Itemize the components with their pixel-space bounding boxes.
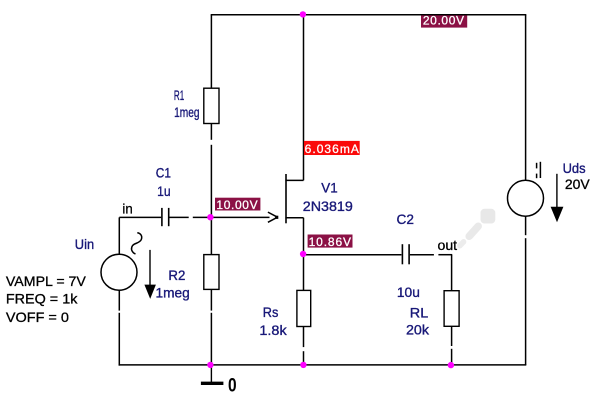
wire: C2 to out corner (438, 254, 452, 256)
wire: R1 branch from top rail (210, 15, 212, 89)
ground 0 (201, 365, 237, 393)
bias label 6.036mA (304, 141, 360, 156)
svg-text:C2: C2 (397, 211, 415, 227)
wire: bottom rail (119, 364, 527, 366)
wire: junction down to R2 (210, 217, 212, 254)
svg-text:20V: 20V (565, 176, 590, 192)
capacitor C2 (402, 244, 434, 264)
node dot: in junction (207, 214, 213, 220)
svg-text:1.8k: 1.8k (259, 322, 287, 338)
svg-text:2N3819: 2N3819 (303, 198, 353, 214)
bias label 10.86V (308, 235, 353, 249)
wire: R2 to bottom rail (210, 313, 212, 365)
capacitor C1 (162, 208, 189, 226)
svg-text:10.86V: 10.86V (309, 235, 351, 249)
Uds polarity arrow (551, 174, 564, 223)
svg-text:10u: 10u (397, 284, 420, 300)
svg-text:1meg: 1meg (174, 104, 199, 120)
transistor V1 body (285, 174, 303, 223)
node dot: ground junction (207, 362, 213, 368)
svg-text:VOFF = 0: VOFF = 0 (6, 309, 69, 325)
node dot: RL bottom junction (448, 362, 454, 368)
wire: source node to C2 (304, 254, 402, 256)
svg-text:RL: RL (410, 305, 429, 321)
wire: RL to bottom rail (451, 349, 453, 365)
svg-text:V1: V1 (321, 180, 338, 196)
svg-text:FREQ = 1k: FREQ = 1k (6, 291, 79, 307)
resistor RL (444, 291, 459, 346)
svg-text:R2: R2 (168, 267, 185, 283)
wire: Uin to bottom rail (118, 290, 120, 365)
svg-text:0: 0 (228, 375, 237, 393)
wire: C1 to junction (193, 216, 211, 218)
bias label 20.00V (421, 14, 467, 28)
probe marker grey (460, 209, 495, 246)
svg-text:6.036mA: 6.036mA (305, 142, 359, 156)
wire: Rs to bottom rail (303, 351, 305, 365)
svg-text:Uds: Uds (563, 160, 586, 176)
resistor R1 (204, 88, 219, 140)
svg-text:20.00V: 20.00V (423, 14, 464, 28)
resistor Rs (297, 290, 311, 347)
svg-text:1u: 1u (157, 183, 171, 199)
wire: gate from junction (211, 216, 270, 218)
wire: Uds to bottom rail (525, 216, 527, 365)
wire: Rs top (303, 255, 305, 291)
bias label 10.00V (215, 198, 260, 212)
wire: top supply rail (211, 14, 527, 16)
Uin current arrow (144, 250, 156, 299)
svg-text:Rs: Rs (263, 304, 279, 320)
svg-text:out: out (438, 237, 458, 253)
source Uin (101, 233, 142, 291)
svg-text:C1: C1 (156, 165, 171, 181)
svg-text:Uin: Uin (75, 236, 94, 252)
wire: out corner down to RL (451, 255, 453, 291)
svg-text:20k: 20k (406, 321, 430, 337)
svg-text:10.00V: 10.00V (216, 198, 257, 212)
svg-text:VAMPL = 7V: VAMPL = 7V (6, 273, 87, 289)
source Uds (508, 162, 544, 216)
wire: drain to top rail (303, 15, 305, 181)
node dot: top rail / drain (300, 11, 306, 17)
svg-text:in: in (122, 200, 132, 216)
transistor V1 gate arrow (268, 212, 278, 222)
resistor R2 (204, 255, 219, 311)
wire: in node horizontal to C1 (119, 216, 161, 218)
wire: R1 to C1 junction (210, 145, 212, 218)
svg-text:R1: R1 (174, 87, 184, 103)
node dot: Rs bottom junction (300, 362, 306, 368)
wire: in node down to Uin (118, 217, 120, 254)
wire: source down to node (303, 218, 305, 255)
wire: right rail from top (525, 15, 527, 181)
svg-text:1meg: 1meg (156, 285, 190, 301)
node dot: source node (300, 251, 306, 257)
